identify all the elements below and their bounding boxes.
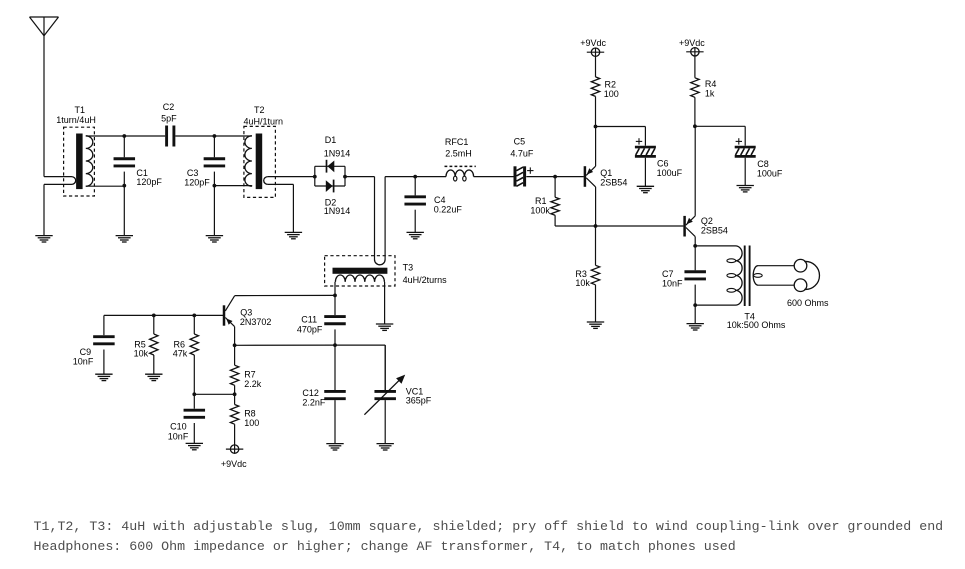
svg-text:0.22uF: 0.22uF [434, 205, 463, 215]
label C10 [168, 422, 189, 442]
svg-text:10nF: 10nF [662, 278, 683, 288]
svg-text:Headphones: 600 Ohm impedance: Headphones: 600 Ohm impedance or higher;… [34, 539, 736, 554]
resistor R6 [190, 315, 198, 394]
headphones earpiece top [794, 259, 807, 272]
label C9 [73, 347, 94, 367]
wire RFC1 to C5 [474, 176, 514, 178]
capacitor C6 (electrolytic) [635, 147, 656, 156]
node C3 bottom [213, 184, 217, 188]
svg-text:10nF: 10nF [73, 357, 94, 367]
node Q3 emitter bus [233, 343, 237, 347]
transistor Q2 emitter [686, 126, 695, 225]
transistor Q1 emitter [586, 127, 595, 176]
note line 2 [34, 539, 736, 554]
transistor Q1 base bar [584, 166, 587, 187]
label C7 [662, 269, 683, 288]
svg-text:600 Ohms: 600 Ohms [787, 298, 829, 308]
svg-text:120pF: 120pF [136, 177, 162, 187]
ground (C10) [186, 443, 203, 449]
wire Q3 collector to T3 [235, 294, 335, 296]
wire T3 link to C4 [385, 176, 415, 178]
transformer T1 primary 1-turn link [44, 177, 76, 185]
node C7 bottom [693, 303, 697, 307]
label +9Vdc (Q3) [221, 459, 247, 469]
label +9Vdc (Q2) [679, 38, 705, 48]
ground (C8) [737, 158, 754, 192]
transformer T1 shield box [64, 127, 95, 196]
node Q1 emitter rail [594, 125, 598, 129]
svg-text:10k:500 Ohms: 10k:500 Ohms [727, 320, 786, 330]
ground (C9) [95, 374, 112, 380]
svg-text:47k: 47k [173, 349, 188, 359]
node Q2 collector [693, 244, 697, 248]
transformer T4 primary coil [727, 246, 742, 305]
label RFC1 [445, 137, 472, 159]
wire T1 to C1 top [86, 135, 125, 137]
C6 plus [636, 138, 642, 144]
transistor Q2 base bar [683, 216, 686, 237]
svg-text:2.2nF: 2.2nF [302, 397, 326, 407]
wire base bus [104, 314, 224, 316]
node diode pair right [343, 175, 347, 179]
capacitor C1 [114, 136, 136, 186]
resistor R4 [691, 78, 699, 127]
transistor Q1 collector [586, 178, 595, 226]
ground (T2 link) [285, 232, 302, 238]
node C1 bottom [122, 184, 126, 188]
svg-text:2SB54: 2SB54 [600, 178, 627, 188]
svg-text:C10: C10 [170, 422, 187, 432]
node C3 top [213, 134, 217, 138]
svg-text:470pF: 470pF [297, 325, 323, 335]
diode D1 [327, 160, 335, 173]
label Q2 [701, 216, 728, 235]
wire collector bus [235, 345, 386, 390]
label 600 Ohms [787, 298, 829, 308]
node Q1 collector [594, 224, 598, 228]
capacitor C11 [324, 295, 346, 345]
wire rail to C8 [695, 126, 745, 145]
resistor R7 [230, 345, 238, 394]
transformer T2 shield box [244, 126, 276, 197]
svg-text:10k: 10k [575, 278, 590, 288]
ground (C12) [326, 444, 343, 450]
label R6 [173, 340, 188, 359]
wire T3 left lead [334, 282, 336, 296]
inductor RFC1 core dashes [445, 165, 476, 167]
resistor R1 [551, 177, 559, 226]
ground (C1) [116, 186, 133, 242]
svg-text:RFC1: RFC1 [445, 137, 469, 147]
svg-text:+9Vdc: +9Vdc [679, 38, 705, 48]
node C4 top [413, 175, 417, 179]
wire antenna to T1 primary [44, 36, 72, 177]
label T4 [727, 312, 786, 331]
wire T1 bottom to C1 bottom [86, 184, 125, 187]
C5 plus [527, 167, 533, 173]
capacitor C7 [684, 246, 706, 305]
resistor R8 [230, 394, 238, 445]
svg-text:D1: D1 [325, 135, 337, 145]
svg-text:+9Vdc: +9Vdc [580, 38, 606, 48]
C8 plus [736, 138, 742, 144]
label C2 [161, 102, 177, 124]
label C1 [136, 168, 162, 187]
svg-text:100uF: 100uF [657, 168, 683, 178]
label Q1 [600, 168, 627, 187]
resistor R2 [591, 77, 599, 127]
svg-text:100k: 100k [530, 206, 550, 216]
inductor RFC1 [446, 170, 474, 181]
svg-text:1k: 1k [705, 89, 715, 99]
transformer T4 secondary link [753, 266, 794, 286]
node R6 top [192, 314, 196, 318]
capacitor C9 [93, 315, 115, 374]
svg-text:T3: T3 [403, 262, 414, 272]
note line 1 [34, 519, 944, 534]
label C5 [510, 137, 534, 159]
transformer T4 core [745, 246, 750, 307]
svg-text:1N914: 1N914 [324, 206, 351, 216]
transistor Q3 collector [225, 296, 234, 311]
label R5 [134, 340, 149, 359]
wire node to Q1 base [555, 176, 584, 178]
wire C3 bottom to T2 bottom [214, 185, 252, 188]
label D2 [324, 198, 351, 217]
wire C4 to RFC1 [415, 176, 446, 178]
ground (R3) [587, 322, 604, 328]
ground (C6) [637, 158, 654, 193]
svg-text:+9Vdc: +9Vdc [221, 459, 247, 469]
power +9Vdc (Q3) [226, 445, 243, 453]
label D1 [324, 135, 351, 158]
svg-text:4uH/1turn: 4uH/1turn [244, 116, 284, 126]
svg-text:4.7uF: 4.7uF [510, 148, 534, 158]
svg-text:100: 100 [604, 89, 619, 99]
capacitor C12 [324, 345, 346, 444]
transistor Q2 collector [686, 228, 695, 246]
label C6 [657, 158, 683, 177]
wire R6 node to R7 node [194, 393, 234, 395]
svg-text:4uH/2turns: 4uH/2turns [403, 275, 448, 285]
wire C5 to R1 node [526, 176, 555, 178]
transformer T2 core [256, 134, 263, 190]
svg-text:10k: 10k [134, 349, 149, 359]
label T1 [56, 105, 96, 125]
capacitor C3 [204, 136, 226, 186]
svg-text:2.2k: 2.2k [244, 379, 262, 389]
power +9Vdc (Q2) [686, 48, 703, 78]
ground (T3) [376, 324, 393, 330]
svg-text:T1,T2, T3: 4uH with adjustable: T1,T2, T3: 4uH with adjustable slug, 10m… [34, 519, 944, 534]
transformer T3 core [333, 268, 388, 274]
resistor R3 [591, 226, 599, 322]
node C11 bottom [333, 343, 337, 347]
svg-text:365pF: 365pF [406, 396, 432, 406]
capacitor C5 (electrolytic) [515, 166, 525, 186]
label T2 [244, 105, 284, 126]
ground (R5) [145, 374, 162, 380]
svg-text:C11: C11 [301, 315, 317, 325]
node Q2 emitter rail [693, 124, 697, 128]
coupling link into T3 [375, 177, 386, 265]
svg-text:C4: C4 [434, 195, 446, 205]
ground (C4) [407, 232, 424, 238]
label R1 [530, 196, 550, 215]
wire T3 right lead to ground [383, 282, 385, 324]
node R6/C10 [192, 392, 196, 396]
transformer T1 secondary coil [86, 136, 93, 186]
label R8 [244, 408, 259, 427]
svg-text:C9: C9 [80, 347, 92, 357]
capacitor C10 [184, 394, 206, 443]
power +9Vdc (Q1) [587, 48, 604, 77]
transformer T3 secondary coil [335, 275, 384, 282]
wire Q1 collector to Q2 base [596, 225, 684, 227]
label R2 [604, 80, 619, 99]
svg-text:10nF: 10nF [168, 431, 189, 441]
resistor R5 [150, 315, 158, 374]
svg-text:120pF: 120pF [184, 178, 210, 188]
label Q3 [240, 308, 272, 328]
ground (antenna/T1) [35, 184, 52, 242]
svg-text:Q3: Q3 [240, 308, 252, 318]
capacitor VC1 [364, 345, 405, 444]
label R4 [705, 79, 717, 98]
ground (C7/T4) [687, 305, 704, 330]
label C12 [302, 388, 326, 407]
label R3 [575, 269, 590, 288]
label R7 [244, 369, 262, 388]
wire C7 bottom to T4 [695, 304, 735, 306]
svg-text:C5: C5 [514, 137, 526, 147]
ground (C3) [206, 186, 223, 242]
transformer T2 primary coil [245, 136, 252, 186]
antenna [30, 17, 59, 36]
wire C1 to C2 [124, 135, 165, 137]
transistor Q3 base bar [223, 305, 226, 325]
node R7/R8 [233, 392, 237, 396]
svg-text:C2: C2 [163, 102, 175, 112]
transformer T2 secondary 1-turn link [264, 177, 315, 233]
wire rail to C6 [596, 127, 646, 146]
svg-text:2SB54: 2SB54 [701, 225, 728, 235]
svg-text:100: 100 [244, 418, 259, 428]
wire C7 top to T4 [695, 245, 735, 247]
node T3/C11/Q3 [333, 294, 337, 298]
svg-text:2N3702: 2N3702 [240, 317, 272, 327]
capacitor C4 [404, 177, 426, 233]
node diode pair left [313, 175, 317, 179]
wire C2 to C3 [175, 135, 214, 137]
label C11 [297, 315, 323, 335]
label T3 [403, 262, 448, 285]
transistor Q3 emitter [225, 318, 234, 346]
transformer T1 core [76, 134, 83, 190]
svg-text:100uF: 100uF [757, 168, 783, 178]
label C4 [434, 195, 463, 215]
ground (VC1) [377, 444, 394, 450]
svg-text:1N914: 1N914 [324, 148, 351, 158]
wire C3 to T2 top [214, 135, 252, 137]
capacitor C2 [167, 126, 174, 147]
svg-text:5pF: 5pF [161, 114, 177, 124]
svg-text:2.5mH: 2.5mH [445, 148, 472, 158]
node C1 top [122, 134, 126, 138]
capacitor C8 (electrolytic) [735, 147, 756, 156]
label C3 [184, 168, 210, 187]
label +9Vdc (Q1) [580, 38, 606, 48]
node R5 top [152, 314, 156, 318]
diode D2 [326, 180, 334, 193]
label C8 [757, 159, 783, 178]
node R1 top [553, 175, 557, 179]
headphones band [804, 261, 819, 289]
svg-text:1turn/4uH: 1turn/4uH [56, 115, 96, 125]
svg-text:T2: T2 [254, 105, 265, 115]
transformer T3 shield box [325, 256, 395, 286]
diode pair frame [315, 166, 345, 186]
wire diode to T3 link [345, 177, 375, 260]
wire R1 to collector node [555, 225, 595, 227]
headphones earpiece bottom [794, 279, 807, 292]
svg-text:T1: T1 [75, 105, 86, 115]
label VC1 [406, 387, 432, 406]
